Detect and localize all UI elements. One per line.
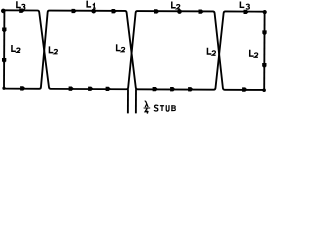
arrow on bottom rail section 1 — [20, 86, 25, 90]
arrow on bottom rail section 2 right — [106, 87, 111, 91]
junction dot bottom-right corner — [262, 88, 266, 92]
arrow on right vertical lower — [262, 63, 266, 68]
junction dot bottom-left corner — [2, 87, 5, 90]
label L2 beside crossing X3 — [207, 48, 215, 55]
junction dot top-right corner — [263, 10, 267, 14]
arrow on left vertical lower — [2, 58, 6, 63]
wire lambda/4 stub right conductor — [135, 89, 137, 113]
arrow on top rail section 2 right — [111, 9, 116, 13]
arrow on bottom rail section 3 right — [188, 87, 193, 91]
arrow on left vertical upper — [2, 28, 6, 33]
label L3 above top rail section 4 — [240, 1, 249, 9]
label L2 beside crossing X2 — [117, 44, 125, 51]
label STUB — [154, 105, 175, 111]
junction dot on top rail under label L2 — [177, 9, 182, 14]
label L1 above top rail section 2 — [87, 1, 96, 9]
label L2 beside right vertical — [250, 50, 258, 57]
arrow on bottom rail section 2 left — [69, 87, 74, 91]
arrow on top rail section 2 left — [71, 9, 76, 13]
label L2 above top rail section 3 — [172, 1, 180, 8]
inductor L2 left end shorting wire — [3, 10, 5, 88]
inductor L2 right end shorting wire — [263, 12, 265, 90]
label 4 denominator of lambda/4 fraction — [145, 108, 148, 113]
arrow on right vertical upper — [262, 30, 266, 35]
junction dot top-left corner — [1, 9, 6, 14]
label fraction bar of lambda/4 — [144, 107, 151, 109]
arrow on bottom rail section 4 — [242, 87, 247, 91]
label L3 above top rail section 1 — [17, 1, 25, 9]
arrow on top rail section 4 — [243, 10, 248, 14]
wire conductor A: top rail 1, down through crossing X1, bottom rail 2, up through X2, top rail 3, down through X3, bottom rail 4 — [4, 10, 265, 90]
arrow on bottom rail section 3 mid — [170, 87, 175, 91]
arrow on bottom rail section 2 mid — [88, 87, 93, 91]
label lambda numerator of lambda/4 fraction — [145, 101, 148, 107]
wire conductor B: bottom rail 1, up through crossing X1, top rail 2, down through X2, bottom rail 3, up through X3, top rail 4 — [4, 10, 265, 90]
wire lambda/4 stub left conductor — [127, 89, 129, 113]
arrow on top rail section 1 — [19, 9, 24, 13]
arrow on top rail section 3 right — [198, 9, 203, 13]
arrow on top rail section 3 left — [154, 9, 159, 13]
label L2 beside left vertical — [12, 45, 20, 52]
label L2 beside crossing X1 — [49, 46, 57, 53]
junction dot on top rail under label L1 — [91, 9, 96, 14]
arrow on bottom rail section 3 left — [153, 87, 158, 91]
